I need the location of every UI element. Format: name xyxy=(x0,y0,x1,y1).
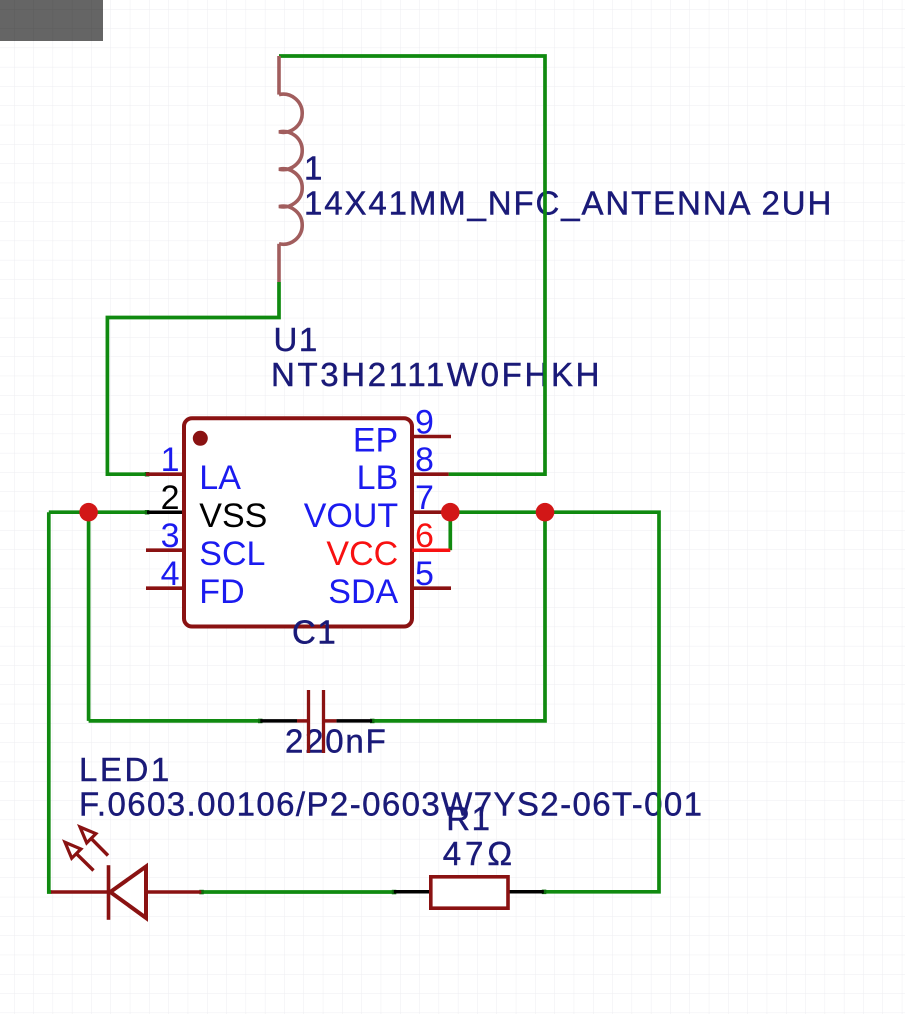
svg-text:VCC: VCC xyxy=(326,535,398,573)
svg-text:220nF: 220nF xyxy=(285,723,388,760)
svg-text:VOUT: VOUT xyxy=(304,497,398,535)
svg-text:C1: C1 xyxy=(292,614,337,651)
svg-text:8: 8 xyxy=(415,441,434,479)
svg-text:9: 9 xyxy=(415,404,434,442)
svg-text:LED1: LED1 xyxy=(79,751,172,788)
svg-text:FD: FD xyxy=(199,573,244,611)
svg-text:EP: EP xyxy=(353,422,398,460)
svg-text:SCL: SCL xyxy=(199,535,265,573)
svg-text:47Ω: 47Ω xyxy=(443,835,516,872)
svg-text:SDA: SDA xyxy=(328,573,398,611)
svg-text:U1: U1 xyxy=(274,321,319,358)
svg-text:VSS: VSS xyxy=(199,497,267,535)
svg-text:5: 5 xyxy=(415,555,434,593)
svg-text:1: 1 xyxy=(161,441,180,479)
svg-text:R1: R1 xyxy=(446,800,491,837)
svg-text:14X41MM_NFC_ANTENNA 2UH: 14X41MM_NFC_ANTENNA 2UH xyxy=(304,184,833,221)
svg-text:4: 4 xyxy=(161,555,180,593)
svg-text:1: 1 xyxy=(304,150,322,187)
svg-text:3: 3 xyxy=(161,517,180,555)
svg-text:6: 6 xyxy=(415,517,434,555)
svg-text:LA: LA xyxy=(199,459,241,497)
svg-text:7: 7 xyxy=(415,479,434,517)
svg-text:F.0603.00106/P2-0603W7YS2-06T-: F.0603.00106/P2-0603W7YS2-06T-001 xyxy=(79,785,703,822)
svg-text:2: 2 xyxy=(161,479,180,517)
svg-text:NT3H2111W0FHKH: NT3H2111W0FHKH xyxy=(271,356,602,393)
svg-text:LB: LB xyxy=(357,459,399,497)
